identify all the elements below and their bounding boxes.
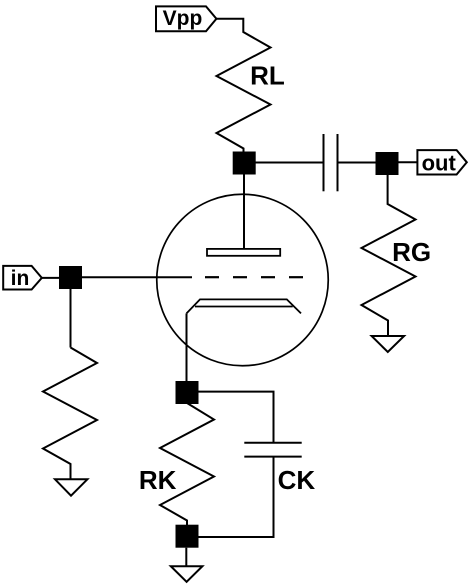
svg-text:Vpp: Vpp [163, 7, 203, 30]
svg-text:out: out [422, 151, 457, 176]
svg-text:RL: RL [250, 61, 285, 91]
svg-text:CK: CK [278, 465, 316, 495]
svg-text:RG: RG [392, 237, 431, 267]
svg-text:in: in [11, 267, 30, 290]
svg-text:RK: RK [139, 465, 177, 495]
